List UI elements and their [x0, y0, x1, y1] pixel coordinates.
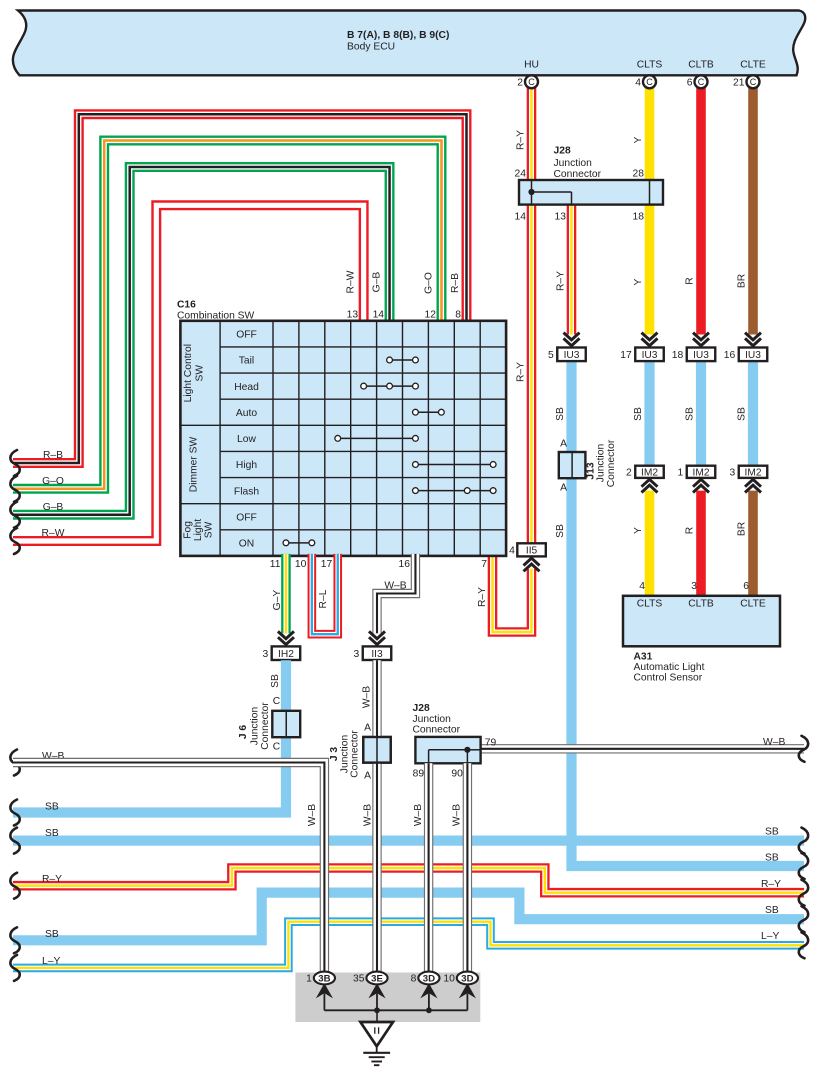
svg-text:C: C: [750, 77, 757, 87]
svg-text:Combination SW: Combination SW: [177, 311, 255, 322]
svg-text:G–Y: G–Y: [272, 590, 283, 611]
svg-text:Auto: Auto: [236, 408, 257, 419]
svg-text:B 7(A), B 8(B), B 9(C): B 7(A), B 8(B), B 9(C): [347, 30, 449, 41]
svg-text:SB: SB: [765, 905, 779, 916]
svg-text:Dimmer SW: Dimmer SW: [189, 436, 200, 492]
svg-text:R–B: R–B: [43, 450, 63, 461]
svg-text:18: 18: [672, 350, 684, 361]
svg-text:17: 17: [321, 559, 333, 570]
svg-text:J28: J28: [413, 703, 430, 714]
svg-text:Connector: Connector: [413, 724, 461, 735]
svg-text:4: 4: [635, 77, 641, 88]
svg-text:C: C: [273, 742, 281, 753]
svg-text:C: C: [646, 77, 653, 87]
svg-text:7: 7: [481, 559, 487, 570]
svg-text:SB: SB: [45, 802, 59, 813]
svg-text:SB: SB: [45, 929, 59, 940]
svg-text:Connector: Connector: [350, 730, 361, 778]
svg-text:SB: SB: [633, 407, 644, 421]
svg-text:16: 16: [724, 350, 736, 361]
svg-text:3D: 3D: [423, 973, 435, 984]
svg-text:A31: A31: [634, 652, 653, 663]
svg-text:89: 89: [413, 769, 425, 780]
svg-text:14: 14: [373, 309, 385, 320]
svg-text:3B: 3B: [318, 973, 330, 984]
svg-text:Body ECU: Body ECU: [347, 42, 395, 53]
svg-text:SB: SB: [555, 524, 566, 538]
svg-text:G–B: G–B: [43, 502, 64, 513]
svg-text:IM2: IM2: [693, 468, 710, 479]
svg-text:R–L: R–L: [318, 589, 329, 608]
svg-text:CLTB: CLTB: [688, 599, 714, 610]
svg-text:14: 14: [515, 212, 527, 223]
svg-text:Connector: Connector: [260, 702, 271, 750]
svg-text:C: C: [273, 696, 281, 707]
svg-text:L–Y: L–Y: [761, 931, 779, 942]
svg-text:G–O: G–O: [423, 272, 434, 294]
svg-text:Head: Head: [234, 382, 259, 393]
svg-text:SW: SW: [195, 365, 206, 382]
svg-text:12: 12: [425, 309, 437, 320]
svg-text:J28: J28: [554, 146, 571, 157]
svg-text:High: High: [236, 460, 257, 471]
svg-text:J 3: J 3: [329, 747, 340, 762]
svg-text:L–Y: L–Y: [42, 956, 60, 967]
svg-text:R–Y: R–Y: [516, 362, 527, 382]
svg-text:13: 13: [555, 212, 567, 223]
svg-text:35: 35: [353, 974, 365, 985]
svg-text:R–Y: R–Y: [42, 874, 62, 885]
svg-text:CLTB: CLTB: [688, 60, 714, 71]
svg-text:IH2: IH2: [278, 649, 294, 660]
svg-text:8: 8: [455, 309, 461, 320]
svg-text:Automatic Light: Automatic Light: [634, 662, 705, 673]
svg-text:3: 3: [691, 581, 697, 592]
svg-text:6: 6: [687, 77, 693, 88]
svg-text:5: 5: [548, 350, 554, 361]
svg-text:SB: SB: [555, 407, 566, 421]
svg-text:OFF: OFF: [236, 512, 257, 523]
svg-text:Fog: Fog: [183, 521, 194, 539]
svg-text:A: A: [560, 483, 567, 494]
svg-text:W–B: W–B: [413, 804, 424, 826]
svg-text:W–B: W–B: [363, 804, 374, 826]
svg-text:IM2: IM2: [641, 468, 658, 479]
svg-text:IU3: IU3: [745, 350, 761, 361]
svg-text:90: 90: [451, 769, 463, 780]
svg-text:A: A: [560, 439, 567, 450]
svg-text:C: C: [698, 77, 705, 87]
svg-text:G–O: G–O: [42, 476, 64, 487]
svg-text:R: R: [685, 277, 696, 284]
svg-text:SB: SB: [45, 828, 59, 839]
svg-text:Junction: Junction: [250, 707, 261, 746]
svg-text:4: 4: [509, 545, 515, 556]
svg-text:Junction: Junction: [554, 158, 593, 169]
svg-text:ON: ON: [239, 539, 254, 550]
svg-text:CLTS: CLTS: [637, 60, 663, 71]
svg-text:1: 1: [306, 974, 312, 985]
svg-text:R–W: R–W: [345, 270, 356, 293]
svg-text:BR: BR: [737, 274, 748, 288]
svg-text:II5: II5: [526, 545, 538, 556]
svg-text:R: R: [685, 527, 696, 534]
svg-text:W–B: W–B: [452, 804, 463, 826]
svg-text:IM2: IM2: [745, 468, 762, 479]
svg-text:R–Y: R–Y: [761, 879, 781, 890]
svg-text:SW: SW: [204, 521, 215, 538]
svg-text:W–B: W–B: [307, 804, 318, 826]
svg-text:R–Y: R–Y: [516, 130, 527, 150]
svg-text:1: 1: [678, 468, 684, 479]
svg-text:A: A: [364, 771, 371, 782]
svg-text:IU3: IU3: [693, 350, 709, 361]
svg-text:3D: 3D: [461, 973, 473, 984]
svg-text:Junction: Junction: [413, 714, 452, 725]
svg-text:Connector: Connector: [606, 439, 617, 487]
svg-text:Flash: Flash: [234, 486, 259, 497]
svg-text:R–Y: R–Y: [556, 271, 567, 291]
svg-text:R–W: R–W: [42, 528, 65, 539]
svg-text:17: 17: [620, 350, 632, 361]
svg-text:24: 24: [515, 169, 527, 180]
svg-text:Control Sensor: Control Sensor: [634, 673, 703, 684]
svg-text:W–B: W–B: [384, 580, 406, 591]
svg-text:Light Control: Light Control: [183, 344, 194, 402]
svg-text:BR: BR: [737, 522, 748, 536]
svg-text:2: 2: [517, 77, 523, 88]
svg-text:8: 8: [411, 974, 417, 985]
svg-text:18: 18: [633, 212, 645, 223]
svg-text:21: 21: [733, 77, 745, 88]
svg-text:3: 3: [262, 649, 268, 660]
svg-text:3E: 3E: [371, 973, 383, 984]
svg-text:SB: SB: [737, 407, 748, 421]
svg-text:Junction: Junction: [596, 444, 607, 483]
svg-text:G–B: G–B: [371, 272, 382, 293]
svg-text:A: A: [364, 723, 371, 734]
svg-text:6: 6: [743, 581, 749, 592]
svg-text:11: 11: [270, 559, 281, 570]
svg-text:CLTE: CLTE: [740, 60, 766, 71]
svg-text:HU: HU: [524, 60, 539, 71]
svg-text:SB: SB: [270, 674, 281, 688]
svg-text:Y: Y: [633, 278, 644, 285]
svg-text:SB: SB: [765, 853, 779, 864]
svg-text:R–B: R–B: [450, 273, 461, 293]
svg-text:IU3: IU3: [642, 350, 658, 361]
svg-text:2: 2: [626, 468, 632, 479]
svg-text:Tail: Tail: [239, 356, 254, 367]
svg-text:II3: II3: [371, 649, 383, 660]
svg-text:28: 28: [633, 169, 645, 180]
svg-text:Light: Light: [193, 519, 204, 541]
svg-text:C16: C16: [177, 300, 196, 311]
svg-text:R–Y: R–Y: [477, 587, 488, 607]
svg-text:J 6: J 6: [238, 725, 249, 740]
svg-text:CLTE: CLTE: [740, 599, 766, 610]
svg-text:C: C: [528, 77, 535, 87]
svg-text:3: 3: [730, 468, 736, 479]
svg-text:W–B: W–B: [763, 737, 785, 748]
svg-text:Connector: Connector: [554, 169, 602, 180]
svg-text:Y: Y: [633, 136, 644, 143]
svg-text:SB: SB: [765, 827, 779, 838]
svg-text:79: 79: [485, 738, 497, 749]
svg-text:Low: Low: [237, 434, 256, 445]
svg-text:10: 10: [295, 559, 307, 570]
svg-text:4: 4: [639, 581, 645, 592]
svg-text:10: 10: [443, 974, 455, 985]
svg-text:W–B: W–B: [361, 686, 372, 708]
svg-text:3: 3: [354, 649, 360, 660]
svg-text:13: 13: [347, 309, 359, 320]
svg-text:SB: SB: [685, 407, 696, 421]
svg-text:OFF: OFF: [236, 330, 257, 341]
svg-text:16: 16: [398, 559, 410, 570]
svg-text:IU3: IU3: [564, 350, 580, 361]
svg-text:Y: Y: [633, 527, 644, 534]
svg-text:CLTS: CLTS: [637, 599, 663, 610]
